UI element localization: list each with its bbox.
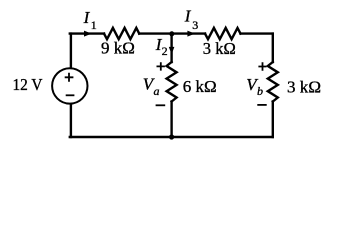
wire right vertical upper [272, 34, 274, 62]
plus sign above Va [157, 62, 165, 70]
wire top-right segment [241, 32, 273, 34]
svg-text:12 V: 12 V [13, 75, 44, 94]
resistor 6k zigzag [167, 62, 177, 102]
svg-text:2: 2 [162, 44, 168, 58]
svg-text:a: a [154, 84, 160, 98]
svg-text:1: 1 [91, 18, 97, 32]
source plus sign [65, 73, 74, 82]
wire right vertical lower [272, 102, 274, 138]
voltage source circle [52, 68, 87, 103]
svg-text:9 kΩ: 9 kΩ [101, 39, 135, 58]
wire middle vertical lower [170, 102, 172, 138]
node bottom junction dot [169, 134, 174, 139]
minus sign below Vb [257, 104, 266, 106]
current arrow I3 head [187, 31, 195, 37]
minus sign below Va [156, 104, 166, 106]
resistor 9k zigzag [104, 28, 139, 39]
wire top-middle segment [139, 32, 205, 34]
resistor 3k top zigzag [205, 28, 241, 39]
svg-text:b: b [257, 84, 263, 98]
svg-text:3 kΩ: 3 kΩ [203, 39, 236, 58]
wire bottom [70, 136, 273, 138]
resistor 3k right zigzag [268, 62, 278, 102]
svg-text:3 kΩ: 3 kΩ [287, 78, 321, 97]
wire middle vertical upper [170, 34, 172, 62]
svg-text:I: I [184, 7, 192, 26]
wire top-left segment [70, 32, 104, 34]
current arrow I2 head [169, 47, 175, 54]
svg-text:3: 3 [192, 18, 198, 32]
wire left vertical upper [70, 34, 72, 68]
source minus sign [66, 94, 75, 96]
svg-text:I: I [83, 8, 91, 27]
svg-text:6 kΩ: 6 kΩ [183, 77, 217, 96]
node top junction dot [169, 31, 174, 36]
plus sign above Vb [258, 62, 266, 70]
wire left vertical lower [70, 105, 72, 138]
current arrow I1 head [84, 31, 92, 37]
